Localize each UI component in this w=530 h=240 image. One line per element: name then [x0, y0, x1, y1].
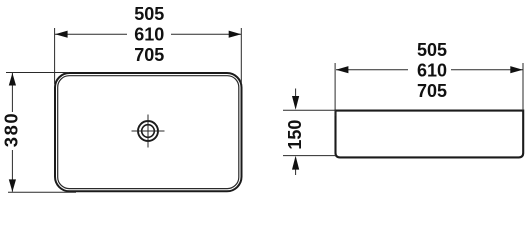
svg-text:705: 705 [417, 81, 447, 101]
svg-text:150: 150 [285, 120, 305, 150]
svg-text:610: 610 [134, 25, 164, 45]
svg-text:705: 705 [134, 45, 164, 65]
svg-text:380: 380 [1, 112, 22, 147]
svg-text:505: 505 [134, 4, 164, 24]
svg-text:610: 610 [417, 61, 447, 81]
svg-text:505: 505 [417, 40, 447, 60]
